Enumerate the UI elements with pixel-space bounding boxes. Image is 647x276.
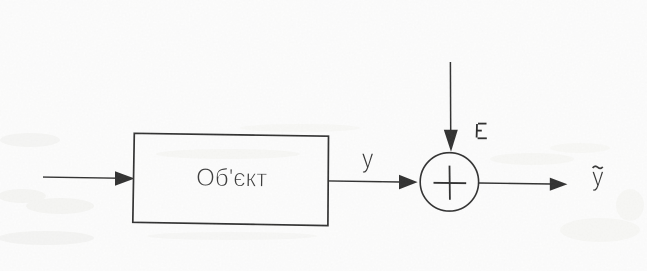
scan smudges bbox=[0, 124, 644, 245]
wire: summer output arrow bbox=[479, 178, 567, 191]
tilde of y-tilde bbox=[593, 166, 603, 168]
ghost smudge inside block bbox=[147, 149, 317, 240]
wire: block output to summer bbox=[329, 175, 418, 190]
wire: epsilon arrow from top into summer bbox=[444, 62, 458, 152]
label epsilon bbox=[477, 124, 487, 139]
node label y bbox=[362, 153, 374, 173]
label y-tilde bbox=[592, 172, 604, 192]
block Об'єкт bbox=[133, 133, 329, 225]
label Об'єкт bbox=[197, 167, 267, 187]
wire: input arrow into block bbox=[43, 171, 135, 186]
plus sign bbox=[434, 166, 467, 200]
summing junction bbox=[420, 153, 478, 211]
